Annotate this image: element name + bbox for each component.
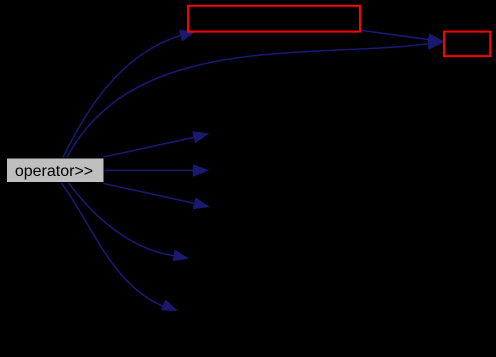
arrowhead edge3 bbox=[192, 131, 209, 143]
small red node (truncated) bbox=[444, 32, 490, 56]
arrowhead edge5 bbox=[193, 197, 210, 209]
edge big red node to small red node bbox=[361, 30, 428, 39]
edge operator>> to hidden node 3 bbox=[104, 184, 195, 204]
arrowhead edge2 bbox=[427, 38, 444, 50]
arrowhead edge6 bbox=[173, 249, 189, 261]
arrowhead edge8 bbox=[427, 33, 444, 45]
arrowhead edge1 bbox=[179, 30, 196, 42]
edge operator>> to small red node bbox=[67, 44, 427, 158]
big red node (truncated) bbox=[188, 6, 360, 32]
edge operator>> to hidden node 5 bbox=[61, 183, 164, 307]
edge operator>> to hidden node 2 bbox=[104, 169, 194, 171]
node operator>> bbox=[7, 158, 105, 183]
arrowhead edge7 bbox=[161, 299, 178, 311]
arrowhead edge4 bbox=[193, 164, 210, 176]
edge operator>> to hidden node 4 bbox=[69, 183, 174, 256]
edge operator>> to hidden node 1 bbox=[104, 137, 195, 157]
svg-text:operator>>: operator>> bbox=[15, 163, 93, 180]
edge operator>> to big red node bbox=[63, 36, 181, 158]
